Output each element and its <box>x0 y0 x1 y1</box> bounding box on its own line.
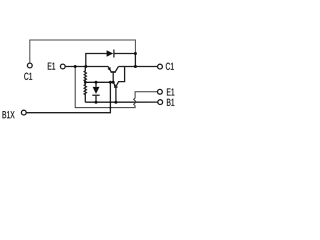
wire top collector <box>30 40 136 63</box>
junction B rail to Q1 base <box>114 101 117 104</box>
transistor Q2 base bar <box>111 71 116 73</box>
wire node M <box>85 81 113 83</box>
junction D1 cathode to collector rail <box>134 52 137 55</box>
junction E1 wire to E-sense <box>74 65 77 68</box>
wire E1 horizontal <box>66 66 109 68</box>
terminal C1 right <box>158 64 163 69</box>
wire D1 anode riser <box>86 54 107 67</box>
label B1X <box>3 111 15 118</box>
wire B1X <box>26 82 110 112</box>
wire B rail <box>85 101 127 103</box>
resistor R1 <box>84 67 86 83</box>
junction node M to B1X riser <box>109 81 112 84</box>
crossing B1X riser over B rail <box>109 101 111 103</box>
label E1 right <box>167 88 174 95</box>
diode D1 <box>107 50 114 56</box>
resistor R2 <box>84 82 86 102</box>
terminal B1X <box>21 110 26 115</box>
label E1 left <box>48 63 55 70</box>
junction collector rail to C1 wire <box>134 65 137 68</box>
junction node M to D2 anode <box>95 81 98 84</box>
terminal E1 left <box>60 64 65 69</box>
wire E sense <box>75 67 157 108</box>
wire collector rail lower segment <box>134 54 136 67</box>
diode D2 stem top <box>95 82 97 87</box>
junction B rail to D2 cathode <box>95 101 98 104</box>
terminal C1 left <box>27 63 32 68</box>
diode D2 <box>93 87 100 94</box>
wire D1 cathode to rail <box>114 53 135 55</box>
transistor Q1 body <box>113 67 124 87</box>
junction node M to resistors <box>84 81 87 84</box>
terminal B1 right <box>158 100 163 105</box>
label C1 right <box>166 63 174 70</box>
transistor Q2 body <box>108 67 118 72</box>
crossing B1X riser over E sense <box>109 107 111 109</box>
arrow Q1 emitter <box>114 84 116 86</box>
wire Q2 collector to C1 right <box>119 66 158 68</box>
arrow Q2 emitter <box>107 67 110 71</box>
wire Q2 base stem <box>112 73 114 83</box>
label C1 left <box>24 73 32 80</box>
junction E1 wire to D1 anode <box>84 65 87 68</box>
junction node M to Q2 base <box>112 81 115 84</box>
diode D2 stem bottom <box>95 96 97 102</box>
label B1 right <box>167 99 174 106</box>
transistor Q1 base bar <box>114 86 118 88</box>
wire B rail to B1 <box>128 101 158 103</box>
terminal E1 right <box>158 89 163 94</box>
wire Q1 base stem <box>115 88 117 103</box>
